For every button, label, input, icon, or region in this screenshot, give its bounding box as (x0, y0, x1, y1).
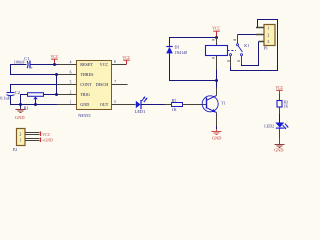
svg-text:0.1uF: 0.1uF (0, 96, 11, 101)
svg-text:5: 5 (70, 81, 72, 85)
svg-text:+GND: +GND (42, 139, 53, 143)
svg-text:K1: K1 (244, 43, 249, 48)
node junction gnd stub (19, 103, 22, 106)
svg-text:2: 2 (70, 91, 72, 95)
wire: top rail to D1 (170, 38, 217, 44)
wire: C1 right plate through VCC junction to pin4 (31, 64, 58, 66)
svg-text:1K: 1K (172, 108, 177, 112)
svg-text:NE555: NE555 (78, 113, 90, 118)
svg-text:T1: T1 (221, 101, 226, 106)
svg-text:GND: GND (212, 135, 221, 140)
resistor R3 (277, 101, 288, 109)
svg-text:VCC: VCC (42, 133, 50, 137)
wire: common contact to P1 pin2 (238, 34, 257, 36)
potentiometer R1 (24, 93, 44, 111)
svg-text:DISCH: DISCH (96, 82, 109, 87)
wire: collector up to node (216, 81, 218, 96)
capacitor C1 (14, 56, 34, 70)
svg-text:D1: D1 (175, 45, 180, 50)
svg-text:1: 1 (19, 137, 21, 142)
pin 7 (112, 80, 128, 84)
node junction VCC/pin4 row (53, 63, 56, 66)
svg-text:2: 2 (267, 32, 269, 37)
connector P2 (13, 129, 25, 153)
transistor T1 (202, 96, 226, 113)
wire: pot right lead to TRIG (44, 94, 57, 96)
svg-text:C2: C2 (15, 90, 20, 95)
svg-text:1: 1 (70, 101, 72, 105)
connector P1 (264, 25, 275, 51)
power VCC right branch (275, 86, 283, 93)
wire: emitter down (216, 113, 218, 130)
node junction THRES (55, 73, 58, 76)
ground right (274, 145, 284, 153)
wire: THRES-TRIG tie (56, 75, 58, 95)
pin P1.3 (259, 41, 265, 43)
svg-text:P1: P1 (264, 45, 268, 50)
svg-text:LED1: LED1 (135, 109, 146, 114)
pin P1.2 (256, 34, 264, 36)
ground at emitter (212, 129, 222, 140)
wire: pot left lead down to GND (21, 95, 28, 109)
pin 2 (58, 91, 77, 95)
svg-text:2: 2 (19, 131, 21, 136)
svg-text:VCC: VCC (122, 56, 130, 60)
svg-text:1K: 1K (284, 105, 289, 109)
capacitor C2 (0, 90, 20, 101)
ground left (15, 110, 26, 120)
svg-text:GND: GND (15, 115, 25, 120)
wire: C1 left plate to THRES row (11, 65, 58, 75)
pin 6 (58, 71, 77, 75)
power port VCC at P2 (41, 132, 51, 138)
svg-text:3: 3 (267, 39, 269, 44)
svg-text:GND: GND (274, 148, 283, 153)
svg-text:7: 7 (114, 80, 116, 84)
wire: NO contact to P1 pin3 (242, 42, 259, 66)
wire: NC contact outer loop to P1 pin1 (231, 20, 278, 71)
wire: C2 bottom to GND row (11, 96, 58, 105)
pin P2.1 (25, 139, 40, 141)
svg-text:8: 8 (114, 60, 116, 64)
pin 1 (57, 101, 77, 105)
555 timer U1 body (77, 61, 112, 119)
wire: R5 to base (183, 104, 207, 106)
relay K1 contacts (227, 35, 242, 68)
svg-text:3: 3 (114, 100, 116, 104)
svg-text:100nF: 100nF (14, 59, 26, 64)
wire: CONT row down to C2 (11, 85, 58, 93)
svg-text:RESET: RESET (80, 62, 93, 67)
power VCC at pin 8 (122, 56, 130, 65)
svg-text:6: 6 (70, 71, 72, 75)
svg-text:P2: P2 (13, 147, 17, 152)
node junction collector (215, 79, 218, 82)
pin 4 (57, 61, 77, 65)
node junction TRIG (55, 93, 58, 96)
LED LED1 (135, 96, 148, 114)
wire: R3 to LED2 (279, 107, 281, 123)
resistor R5 (172, 99, 183, 112)
wire: LED1 cathode to R5 (141, 104, 172, 106)
power port GND at P2 (41, 138, 54, 143)
svg-text:LED2: LED2 (264, 124, 274, 129)
pin P1.1 (256, 27, 264, 29)
svg-text:THRES: THRES (80, 72, 94, 77)
wire: LED2 to GND (279, 128, 281, 144)
node junction wiper (34, 103, 37, 106)
svg-text:1: 1 (267, 25, 269, 30)
wire: pin3 to LED1 (120, 104, 136, 106)
svg-text:OUT: OUT (100, 102, 109, 107)
power VCC left (51, 55, 59, 65)
svg-text:4: 4 (70, 61, 72, 65)
pin P2.2 (25, 133, 40, 135)
svg-text:VCC: VCC (100, 62, 109, 67)
svg-text:GND: GND (80, 102, 89, 107)
diode D1 1N4148 (166, 43, 187, 55)
power VCC top (212, 27, 220, 38)
LED LED2 (264, 123, 288, 130)
svg-text:C1: C1 (24, 56, 29, 61)
pin 5 (57, 81, 77, 85)
wire: D1 anode to collector node (170, 53, 217, 80)
svg-text:TRIG: TRIG (80, 92, 90, 97)
pin 8 (112, 60, 127, 64)
pin 3 (112, 100, 120, 104)
svg-text:CONT: CONT (80, 82, 92, 87)
svg-text:1N4148: 1N4148 (175, 51, 188, 55)
wire: VCC to R3 (279, 94, 281, 101)
svg-text:VCC: VCC (212, 27, 220, 31)
svg-text:VCC: VCC (275, 86, 283, 90)
relay K1 coil (206, 38, 250, 81)
node junction top rail (215, 36, 218, 39)
svg-text:VCC: VCC (51, 55, 59, 59)
svg-text:R5: R5 (172, 99, 177, 103)
